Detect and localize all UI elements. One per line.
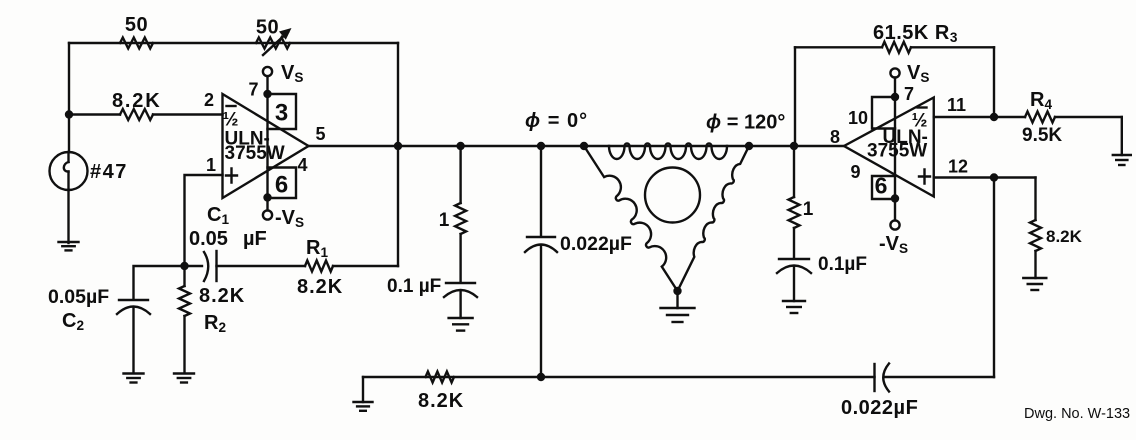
svg-text:0.1 µF: 0.1 µF: [387, 276, 441, 297]
svg-text:8.2K: 8.2K: [418, 390, 464, 412]
svg-text:61.5K R3: 61.5K R3: [873, 22, 958, 45]
svg-text:Dwg. No. W-133: Dwg. No. W-133: [1024, 406, 1130, 422]
svg-text:3755W: 3755W: [225, 143, 285, 164]
svg-text:3755W: 3755W: [867, 140, 927, 161]
svg-text:1: 1: [206, 155, 216, 175]
svg-text:ϕ = 120°: ϕ = 120°: [706, 112, 785, 134]
svg-text:0.022µF: 0.022µF: [841, 397, 918, 419]
svg-text:6: 6: [275, 172, 288, 199]
svg-text:10: 10: [848, 108, 868, 128]
svg-text:ϕ = 0°: ϕ = 0°: [525, 110, 588, 132]
svg-text:11: 11: [947, 95, 966, 115]
svg-text:12: 12: [948, 157, 968, 177]
svg-text:4: 4: [297, 155, 307, 175]
svg-text:R4: R4: [1030, 89, 1052, 112]
svg-text:8: 8: [830, 127, 840, 147]
svg-text:7: 7: [904, 84, 914, 104]
svg-text:6: 6: [875, 173, 888, 199]
svg-text:3: 3: [275, 100, 288, 127]
svg-text:8.2K: 8.2K: [199, 285, 245, 307]
svg-text:½: ½: [223, 110, 239, 131]
svg-text:8.2K: 8.2K: [1046, 227, 1083, 246]
svg-text:9: 9: [850, 162, 860, 182]
svg-text:C2: C2: [62, 310, 84, 333]
svg-text:VS: VS: [281, 62, 303, 85]
svg-text:R1: R1: [306, 237, 328, 260]
svg-text:9.5K: 9.5K: [1022, 125, 1062, 146]
svg-text:C1: C1: [207, 204, 229, 227]
svg-text:0.05µF: 0.05µF: [48, 286, 109, 308]
svg-text:µF: µF: [243, 228, 267, 250]
svg-text:0.022µF: 0.022µF: [560, 233, 632, 255]
svg-text:R2: R2: [204, 312, 226, 335]
svg-text:5: 5: [315, 124, 325, 144]
svg-text:50: 50: [256, 17, 279, 39]
svg-text:1: 1: [803, 199, 814, 220]
svg-text:VS: VS: [907, 62, 929, 85]
svg-text:1: 1: [439, 210, 450, 231]
svg-text:-VS: -VS: [879, 233, 908, 256]
svg-text:7: 7: [248, 80, 258, 100]
svg-text:-VS: -VS: [275, 207, 304, 230]
svg-text:0.1µF: 0.1µF: [818, 254, 867, 275]
svg-text:2: 2: [204, 90, 214, 110]
svg-text:8.2K: 8.2K: [112, 90, 161, 112]
svg-text:8.2K: 8.2K: [297, 276, 343, 298]
svg-text:#47: #47: [90, 161, 128, 183]
svg-text:50: 50: [125, 14, 148, 36]
svg-text:0.05: 0.05: [189, 228, 228, 250]
